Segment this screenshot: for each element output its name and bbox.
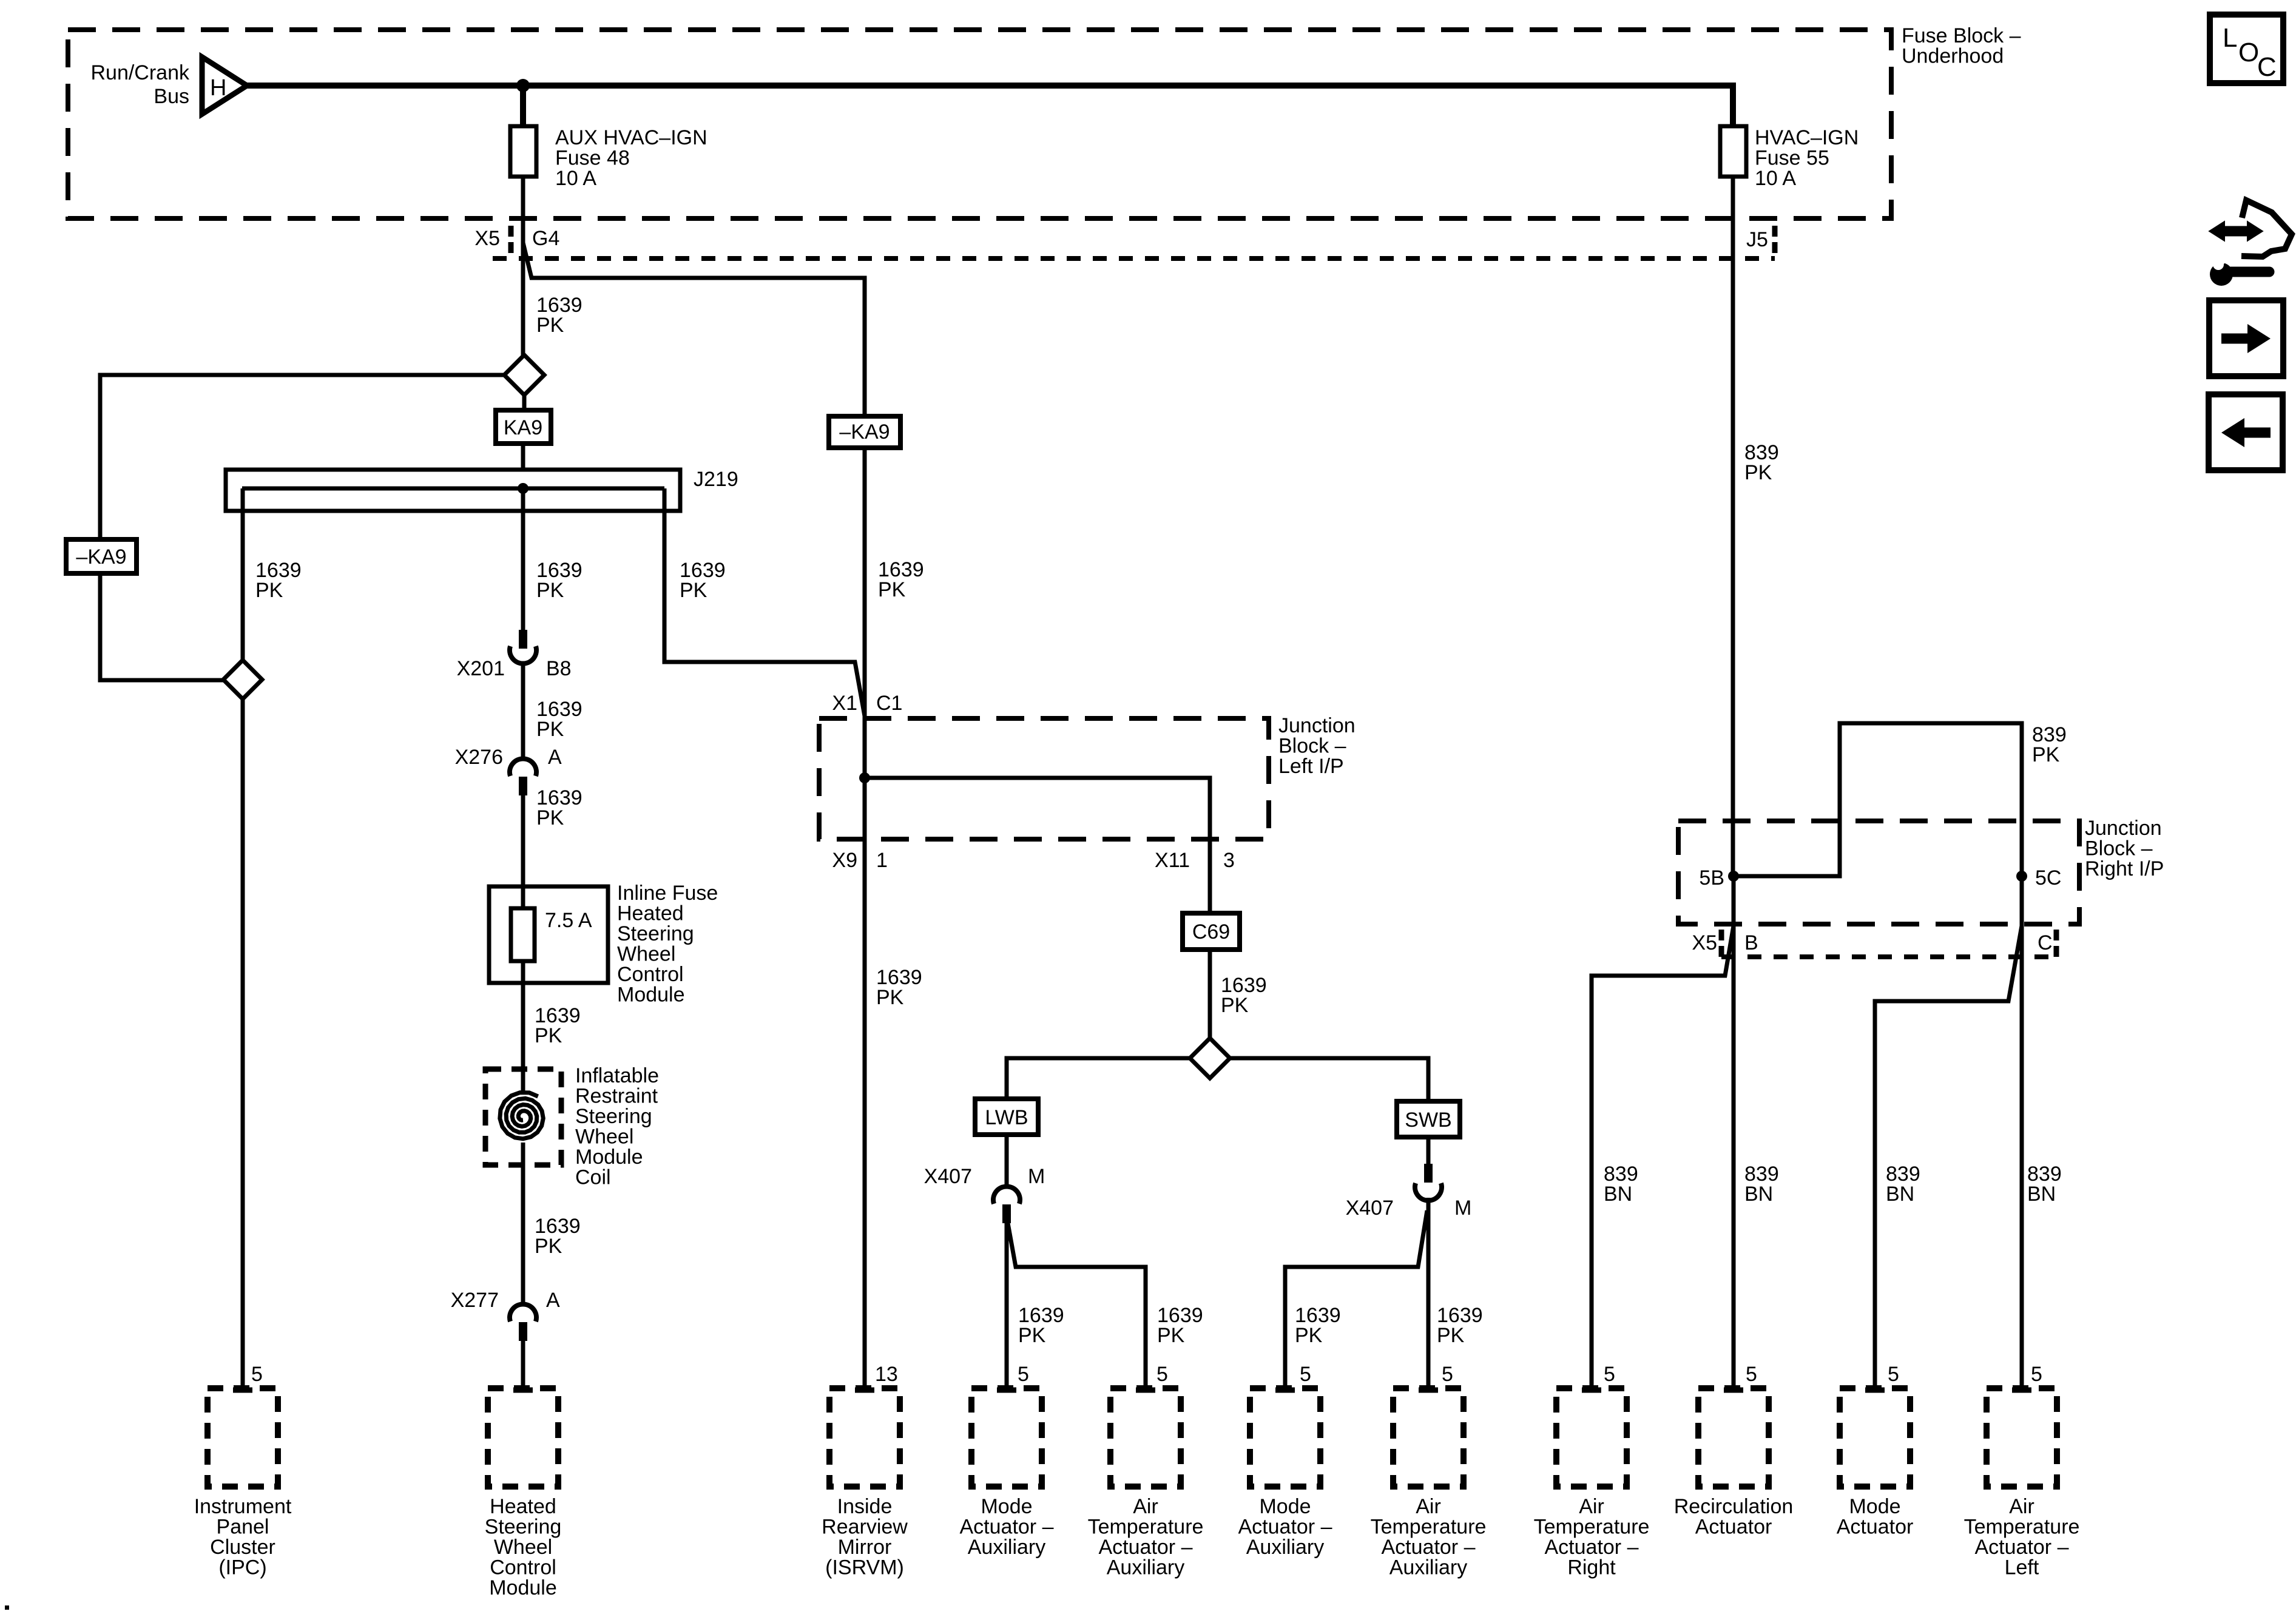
junction block right I/P dashed box (1678, 821, 2079, 924)
svg-text:Control: Control (490, 1556, 556, 1579)
connector X5 dotted pass-through line (493, 256, 1775, 261)
inline connector X407 pin M (LWB) (993, 1186, 1020, 1204)
svg-text:5: 5 (1300, 1363, 1311, 1386)
component box Instrument Panel Cluster (IPC) (208, 1388, 278, 1487)
svg-text:H: H (210, 75, 226, 101)
svg-text:PK: PK (1157, 1324, 1185, 1347)
wire fuse48 drop from bus (520, 86, 526, 126)
wire C69 to splice S3 (1208, 950, 1212, 1038)
svg-text:Block –: Block – (1278, 735, 1346, 758)
relay box -KA9 (middle) (829, 416, 900, 448)
svg-text:PK: PK (535, 1024, 562, 1047)
svg-text:Bus: Bus (154, 85, 189, 108)
wire 5C down to air temp actuator left (2020, 876, 2024, 1388)
connector X5 right dotted pass-through (1721, 954, 2056, 959)
svg-text:PK: PK (536, 718, 564, 741)
svg-text:C1: C1 (876, 692, 902, 715)
connector tick C end (2054, 930, 2059, 957)
svg-text:Module: Module (575, 1146, 643, 1169)
svg-text:(IPC): (IPC) (218, 1556, 266, 1579)
wire J5 down to 5B (1731, 177, 1735, 876)
inline connector X277 pin A (510, 1304, 536, 1322)
svg-text:13: 13 (875, 1363, 898, 1386)
svg-text:Block –: Block – (2085, 837, 2153, 860)
svg-text:Right: Right (1567, 1556, 1616, 1579)
svg-text:X277: X277 (451, 1289, 499, 1312)
svg-text:X1: X1 (832, 692, 857, 715)
wire -KA9 left to splice S2 (100, 573, 223, 680)
wire X407 LWB to mode actuator aux (1005, 1223, 1009, 1388)
svg-text:Panel: Panel (217, 1516, 269, 1539)
connector box C69 (1183, 913, 1240, 950)
svg-text:X11: X11 (1155, 849, 1190, 872)
svg-text:PK: PK (536, 314, 564, 337)
wire J219 center leg down to X201 (521, 488, 525, 640)
svg-text:10 A: 10 A (1755, 167, 1796, 190)
wire branch X407 LWB to air temp actuator aux (1008, 1223, 1146, 1388)
svg-text:Recirculation: Recirculation (1674, 1495, 1794, 1518)
svg-text:BN: BN (2027, 1183, 2056, 1206)
svg-text:Inflatable: Inflatable (575, 1064, 659, 1087)
svg-text:5: 5 (1746, 1363, 1757, 1386)
fuse 7.5A symbol (511, 908, 535, 961)
svg-text:5B: 5B (1699, 866, 1724, 890)
svg-text:Actuator: Actuator (1837, 1516, 1914, 1539)
wire X277 to heated steering module (521, 1341, 525, 1388)
svg-text:Air: Air (1133, 1495, 1158, 1518)
svg-text:5: 5 (1604, 1363, 1615, 1386)
svg-text:Air: Air (2009, 1495, 2034, 1518)
svg-text:Air: Air (1416, 1495, 1441, 1518)
junction dot X9 wire (859, 772, 870, 783)
svg-text:PK: PK (535, 1235, 562, 1258)
svg-text:Auxiliary: Auxiliary (1389, 1556, 1467, 1579)
inflatable restraint coil dashed box (485, 1069, 561, 1165)
inline connector X407 pin M (SWB) (1424, 1164, 1433, 1183)
svg-text:PK: PK (876, 986, 904, 1009)
wire LWB to X407 (1005, 1135, 1009, 1189)
svg-text:1: 1 (876, 849, 888, 872)
svg-text:Steering: Steering (485, 1516, 562, 1539)
connector tick X5/G4 (508, 226, 514, 253)
svg-text:Heated: Heated (490, 1495, 556, 1518)
svg-text:Run/Crank: Run/Crank (90, 61, 190, 84)
svg-text:Module: Module (617, 984, 685, 1007)
component box Heated Steering Wheel Control Module (488, 1388, 558, 1487)
svg-text:Mode: Mode (1259, 1495, 1311, 1518)
svg-text:Cluster: Cluster (210, 1536, 275, 1559)
svg-text:5: 5 (1156, 1363, 1168, 1386)
svg-text:PK: PK (1221, 994, 1249, 1017)
junction block left I/P dashed box (819, 718, 1269, 839)
fuse F55 HVAC-IGN 10A symbol (1720, 126, 1746, 177)
svg-text:Temperature: Temperature (1088, 1516, 1204, 1539)
wire J219 right leg down (664, 488, 865, 716)
svg-text:Fuse Block –: Fuse Block – (1902, 24, 2021, 47)
svg-text:O: O (2238, 38, 2259, 67)
svg-text:PK: PK (1295, 1324, 1323, 1347)
svg-text:PK: PK (1744, 461, 1772, 484)
connector tick J5 end (1772, 226, 1778, 253)
svg-text:5: 5 (251, 1363, 263, 1386)
svg-text:LWB: LWB (985, 1106, 1028, 1129)
svg-text:5C: 5C (2035, 866, 2061, 890)
svg-text:X407: X407 (924, 1165, 972, 1188)
svg-text:Inline Fuse: Inline Fuse (617, 882, 718, 905)
wire SWB to X407 (1427, 1137, 1431, 1165)
svg-text:Mode: Mode (981, 1495, 1032, 1518)
wire S3 right to SWB (1230, 1058, 1428, 1101)
wire X407 SWB to air temp actuator aux 2 (1427, 1198, 1431, 1388)
wire junction block internal to X11 (865, 778, 1210, 913)
component box Mode Actuator (1840, 1388, 1910, 1487)
svg-text:X407: X407 (1346, 1197, 1394, 1220)
splice diamond S2 (223, 660, 262, 699)
relay box KA9 (496, 410, 551, 444)
svg-text:Actuator –: Actuator – (1382, 1536, 1476, 1559)
wire coil box to X277 (521, 1143, 525, 1305)
svg-text:SWB: SWB (1405, 1109, 1451, 1132)
svg-text:Instrument: Instrument (194, 1495, 292, 1518)
svg-text:B: B (1744, 931, 1758, 954)
svg-text:BN: BN (1604, 1183, 1632, 1206)
wire S2 down to IPC (241, 699, 245, 1388)
wire 5B loop up and over to 5C (1734, 723, 2022, 876)
svg-text:Left: Left (2005, 1556, 2039, 1579)
svg-text:Actuator –: Actuator – (1545, 1536, 1639, 1559)
svg-text:5: 5 (1888, 1363, 1899, 1386)
svg-text:A: A (548, 746, 562, 769)
svg-text:Auxiliary: Auxiliary (968, 1536, 1045, 1559)
svg-text:M: M (1028, 1165, 1045, 1188)
svg-text:Wheel: Wheel (575, 1126, 633, 1149)
svg-text:5: 5 (2031, 1363, 2042, 1386)
svg-text:PK: PK (255, 579, 283, 602)
svg-text:(ISRVM): (ISRVM) (825, 1556, 904, 1579)
svg-text:Temperature: Temperature (1534, 1516, 1650, 1539)
svg-text:PK: PK (878, 578, 906, 601)
svg-text:–KA9: –KA9 (76, 545, 126, 569)
svg-text:Actuator –: Actuator – (1099, 1536, 1193, 1559)
option box LWB (975, 1099, 1038, 1135)
inline connector X276 pin A (510, 758, 536, 776)
svg-text:Fuse 48: Fuse 48 (555, 147, 630, 170)
svg-text:Mode: Mode (1849, 1495, 1900, 1518)
svg-text:Inside: Inside (837, 1495, 893, 1518)
svg-text:Steering: Steering (575, 1105, 652, 1128)
svg-text:Auxiliary: Auxiliary (1107, 1556, 1184, 1579)
splice pack J219 outer box (226, 470, 680, 511)
fuse F48 AUX HVAC-IGN 10A symbol (510, 126, 536, 177)
svg-text:3: 3 (1223, 849, 1235, 872)
wire -KA9 down through X1 to junction block and ISRVM (863, 448, 867, 1388)
component box Mode Actuator - Auxiliary (2) (1250, 1388, 1320, 1487)
svg-text:L: L (2223, 23, 2237, 53)
coil spiral (inflatable restraint steering wheel module coil) (500, 1093, 544, 1139)
svg-text:Steering: Steering (617, 922, 694, 945)
icon LOC box (2210, 15, 2283, 83)
component box Air Temperature Actuator - Right (1556, 1388, 1627, 1487)
inline fuse module box (489, 886, 608, 983)
wire bus corner to fuse 55 (1730, 83, 1736, 126)
inline connector X201 pin B8 (519, 630, 527, 649)
svg-text:Left I/P: Left I/P (1278, 755, 1344, 778)
svg-text:KA9: KA9 (504, 416, 542, 439)
svg-text:X201: X201 (457, 657, 505, 680)
wire fuse48 to X5-G4 exit (521, 177, 525, 356)
svg-text:HVAC–IGN: HVAC–IGN (1755, 126, 1859, 149)
svg-text:Right I/P: Right I/P (2085, 857, 2164, 880)
component box Mode Actuator - Auxiliary (1) (971, 1388, 1042, 1487)
svg-text:PK: PK (680, 579, 707, 602)
svg-text:–KA9: –KA9 (839, 420, 890, 444)
splice diamond S3 (1190, 1038, 1230, 1078)
svg-text:BN: BN (1744, 1183, 1773, 1206)
option box SWB (1397, 1101, 1460, 1137)
svg-text:Temperature: Temperature (1964, 1516, 2080, 1539)
connector tick X5/B (1719, 930, 1724, 957)
wire X201 to X276 (521, 663, 525, 760)
svg-text:Heated: Heated (617, 902, 684, 925)
svg-text:X5: X5 (474, 227, 500, 250)
svg-text:C: C (2038, 931, 2053, 954)
wire Run/Crank bus horizontal (246, 83, 1733, 89)
svg-text:Restraint: Restraint (575, 1085, 658, 1108)
wire X276 to inline fuse (521, 795, 525, 908)
wire diamond S1 left branch to -KA9 left (100, 375, 504, 539)
svg-text:PK: PK (1437, 1324, 1465, 1347)
svg-text:AUX HVAC–IGN: AUX HVAC–IGN (555, 126, 707, 149)
splice pack J219 inner bus bar (242, 487, 664, 491)
svg-text:Wheel: Wheel (494, 1536, 552, 1559)
icon prev-page arrow box (2209, 394, 2283, 470)
svg-text:X276: X276 (455, 746, 503, 769)
svg-text:Junction: Junction (2085, 817, 2162, 840)
svg-text:Actuator –: Actuator – (960, 1516, 1054, 1539)
component box Air Temperature Actuator - Left (1987, 1388, 2057, 1487)
svg-text:PK: PK (2032, 743, 2060, 766)
svg-text:Temperature: Temperature (1371, 1516, 1487, 1539)
svg-text:PK: PK (1018, 1324, 1046, 1347)
svg-text:Actuator –: Actuator – (1975, 1536, 2069, 1559)
svg-text:Underhood: Underhood (1902, 45, 2004, 68)
svg-text:Wheel: Wheel (617, 943, 675, 966)
svg-text:PK: PK (536, 806, 564, 829)
svg-text:7.5 A: 7.5 A (545, 909, 592, 932)
svg-text:Mirror: Mirror (838, 1536, 892, 1559)
svg-text:X5: X5 (1692, 931, 1717, 954)
svg-text:Fuse 55: Fuse 55 (1755, 147, 1829, 170)
svg-text:C69: C69 (1192, 920, 1230, 944)
wire KA9 box to J219 (521, 444, 525, 488)
icon adjustable-component (arrows and wrench) (2220, 226, 2251, 237)
relay box -KA9 (left) (66, 539, 137, 573)
wire branch X407 SWB to mode actuator aux 2 (1285, 1210, 1427, 1388)
svg-text:J219: J219 (694, 468, 738, 491)
svg-text:C: C (2257, 52, 2277, 82)
junction dot 5B (1728, 871, 1739, 882)
component box Inside Rearview Mirror (ISRVM) (829, 1388, 900, 1487)
svg-text:X9: X9 (832, 849, 857, 872)
wire diamond S1 to KA9 box (522, 395, 527, 410)
svg-text:Coil: Coil (575, 1166, 611, 1189)
wire 5B down to recirculation actuator (1732, 876, 1736, 1388)
svg-text:10 A: 10 A (555, 167, 596, 190)
svg-text:M: M (1454, 1197, 1471, 1220)
wire S3 left to LWB (1007, 1058, 1190, 1099)
svg-text:Rearview: Rearview (822, 1516, 908, 1539)
power triangle H (Run/Crank Bus) (202, 57, 247, 114)
svg-text:Actuator: Actuator (1695, 1516, 1772, 1539)
svg-text:Air: Air (1579, 1495, 1604, 1518)
svg-text:Junction: Junction (1278, 714, 1356, 737)
splice diamond S1 (504, 355, 544, 395)
svg-text:Module: Module (489, 1576, 557, 1599)
wire branch slant at G4 to -KA9 feed (523, 243, 865, 416)
svg-text:Control: Control (617, 963, 684, 986)
wire J219 left leg down (241, 488, 245, 660)
wire inline fuse to coil box (521, 961, 525, 1093)
stray period bottom-left (5, 1605, 9, 1610)
icon next-page arrow box (2209, 300, 2283, 376)
junction dot J219 center (518, 483, 528, 494)
junction dot 5C (2016, 871, 2027, 882)
svg-text:5: 5 (1018, 1363, 1029, 1386)
svg-text:Actuator –: Actuator – (1238, 1516, 1332, 1539)
svg-text:B8: B8 (546, 657, 572, 680)
component box Recirculation Actuator (1698, 1388, 1769, 1487)
svg-text:G4: G4 (532, 227, 559, 250)
junction dot on bus at fuse 48 tap (516, 79, 530, 92)
svg-text:PK: PK (536, 579, 564, 602)
svg-text:5: 5 (1442, 1363, 1453, 1386)
fuse block - underhood dashed outline (68, 30, 1891, 218)
component box Air Temperature Actuator - Auxiliary (1) (1110, 1388, 1181, 1487)
svg-text:A: A (546, 1289, 560, 1312)
svg-text:Auxiliary: Auxiliary (1246, 1536, 1324, 1559)
svg-text:BN: BN (1886, 1183, 1914, 1206)
component box Air Temperature Actuator - Auxiliary (2) (1393, 1388, 1464, 1487)
wire branch B to air temp actuator right (1592, 926, 1734, 1388)
svg-text:J5: J5 (1746, 228, 1768, 251)
wire branch C to mode actuator (1875, 926, 2022, 1388)
